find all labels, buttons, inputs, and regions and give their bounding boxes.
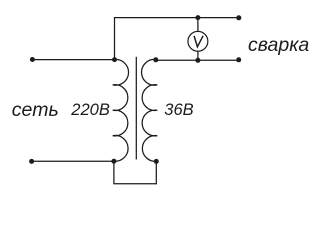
svg-text:36В: 36В (164, 101, 193, 119)
svg-text:сварка: сварка (248, 34, 309, 56)
svg-text:220В: 220В (70, 101, 110, 119)
svg-text:cemь: cemь (12, 99, 59, 121)
